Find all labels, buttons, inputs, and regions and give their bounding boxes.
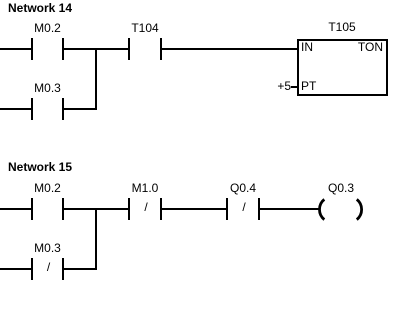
network 14 header bbox=[8, 2, 72, 14]
contact M0.3 (network 15, normally closed) bbox=[31, 258, 33, 280]
contact M0.2 (network 14) bbox=[31, 38, 33, 60]
label M0.3 bbox=[34, 82, 61, 94]
contact Q0.4 (normally closed) bbox=[226, 198, 228, 220]
wire: N15 branch to junction bbox=[64, 268, 97, 270]
junction: N14 parallel branch join bbox=[95, 48, 97, 110]
label Q0.3 bbox=[328, 182, 354, 194]
contact M1.0 (normally closed) bbox=[128, 198, 130, 220]
pin label PT bbox=[301, 80, 316, 92]
coil Q0.3 bbox=[310, 192, 370, 226]
wire: N15 branch left segment bbox=[0, 268, 31, 270]
wire: N14 rung between M0.2 and T104 bbox=[64, 48, 128, 50]
wire: N14 branch to junction bbox=[64, 108, 97, 110]
contact M0.3 (network 14) bbox=[31, 98, 33, 120]
slash of Q0.4 NC contact bbox=[242, 201, 245, 213]
wire: N14 rung left segment bbox=[0, 48, 31, 50]
label M1.0 bbox=[132, 182, 159, 194]
label T105 bbox=[328, 21, 355, 33]
junction: N15 parallel branch join bbox=[95, 208, 97, 270]
label Q0.4 bbox=[230, 182, 256, 194]
pin label IN bbox=[301, 41, 313, 53]
contact T104 bbox=[128, 38, 130, 60]
wire: N14 branch left segment bbox=[0, 108, 31, 110]
label T104 bbox=[131, 22, 158, 34]
wire: N15 rung between M1.0 and Q0.4 bbox=[162, 208, 226, 210]
label M0.2 bbox=[34, 22, 61, 34]
network 15 header bbox=[8, 161, 72, 173]
wire: N14 rung from T104 to timer box bbox=[162, 48, 297, 50]
slash of M1.0 NC contact bbox=[144, 201, 147, 213]
wire: N15 rung left segment bbox=[0, 208, 31, 210]
label M0.3 (network 15) bbox=[34, 242, 61, 254]
wire: PT input tick bbox=[291, 86, 297, 88]
label TON bbox=[358, 41, 383, 53]
slash of M0.3 NC contact bbox=[47, 261, 50, 273]
label M0.2 (network 15) bbox=[34, 182, 61, 194]
wire: N15 rung between M0.2 and M1.0 bbox=[64, 208, 128, 210]
contact M0.2 (network 15) bbox=[31, 198, 33, 220]
wire: N15 rung from Q0.4 to coil bbox=[260, 208, 320, 210]
value +5 on PT bbox=[277, 80, 291, 92]
timer box T105 (TON) bbox=[297, 39, 388, 96]
